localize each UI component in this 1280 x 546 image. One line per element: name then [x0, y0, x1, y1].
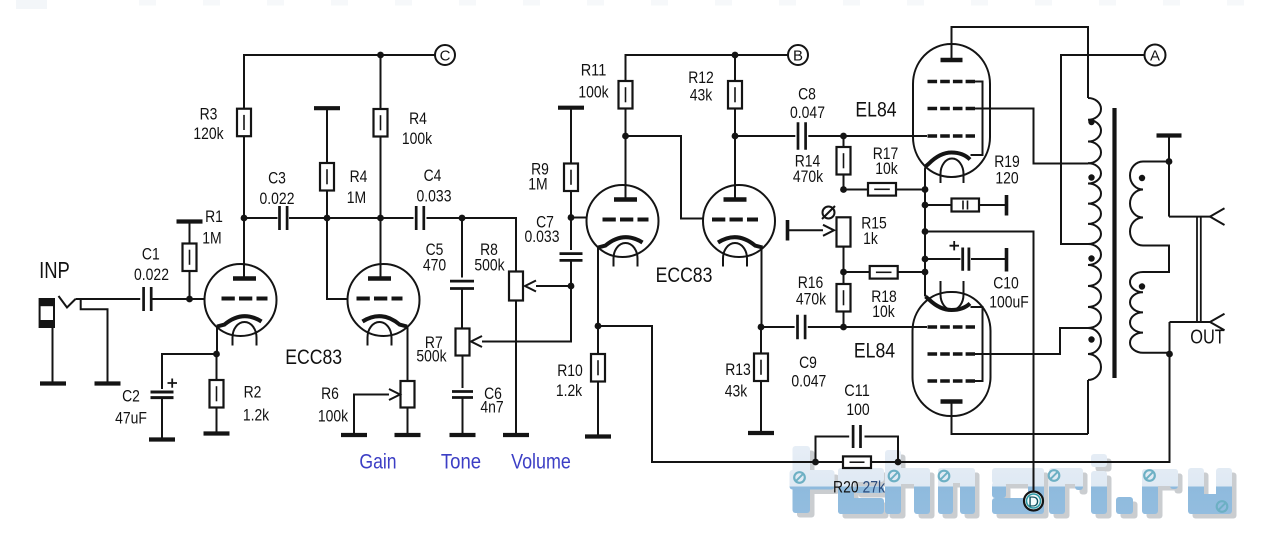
label C7 — [536, 213, 554, 232]
wire R2 to ground — [216, 408, 218, 433]
junction cathode V1a — [213, 351, 220, 358]
ground R13 — [748, 431, 774, 435]
wire C10 to end bar — [971, 258, 1005, 260]
ground above R4 1M — [314, 106, 340, 110]
svg-text:C2: C2 — [122, 387, 140, 406]
wire feedback bottom rail — [598, 326, 1170, 462]
junction R16 / C9 — [840, 324, 847, 331]
triode V1b (ECC83 half 2) — [348, 264, 420, 346]
svg-text:10k: 10k — [875, 159, 898, 178]
ground C2 — [149, 437, 175, 441]
grid g2 EL84 top — [928, 107, 976, 111]
svg-text:ECC83: ECC83 — [656, 263, 713, 287]
svg-text:0.022: 0.022 — [134, 265, 169, 284]
svg-text:Volume: Volume — [511, 450, 571, 474]
terminal D — [1024, 492, 1043, 511]
svg-text:0.033: 0.033 — [525, 227, 560, 246]
svg-text:OUT: OUT — [1190, 327, 1225, 349]
junction C8 / R14 — [840, 133, 847, 140]
wire R14 bottom — [843, 175, 845, 190]
wire cathode V1a down — [216, 327, 218, 355]
label C10 — [993, 274, 1019, 293]
polarity dot primary 2 — [1088, 174, 1094, 180]
svg-text:A: A — [1150, 47, 1160, 64]
capacitor C3 0.022 — [280, 206, 288, 230]
potentiometer R8 500k Volume — [509, 272, 523, 301]
wire plate V1a to C3 — [244, 217, 278, 219]
end bar C10 — [1005, 248, 1009, 272]
label R4 (100k) — [409, 109, 427, 128]
wire cathode to C2 — [162, 354, 217, 389]
ground secondary top — [1157, 133, 1182, 137]
bias feed bar — [786, 220, 790, 241]
ground C6 — [450, 433, 476, 437]
wire C11 right leg — [865, 437, 899, 463]
svg-text:500k: 500k — [416, 347, 447, 366]
svg-text:47uF: 47uF — [115, 409, 147, 428]
svg-text:R11: R11 — [581, 61, 607, 80]
wire bias bar to R15 wiper — [788, 229, 824, 231]
wire R7 wiper to C7 node — [482, 286, 571, 342]
wire grid V2a — [571, 217, 588, 219]
wire R17 right — [896, 189, 925, 191]
ground above R9 — [558, 106, 584, 110]
wire R6 to ground — [407, 408, 409, 434]
resistor R2 1.2k — [210, 380, 224, 408]
wire R6 wiper to ground — [354, 395, 389, 434]
wire jack sleeve down — [1169, 322, 1171, 354]
svg-text:R3: R3 — [200, 105, 218, 124]
junction R9 / C7 / grid V2a — [568, 214, 575, 221]
svg-text:1.2k: 1.2k — [556, 381, 583, 400]
junction cathode V2a / feedback — [595, 323, 602, 330]
label C1 — [142, 245, 160, 264]
wire cathode V2b to C9 — [761, 326, 795, 328]
svg-text:43k: 43k — [725, 382, 748, 401]
wire g3 to cathode EL84 bottom — [971, 307, 983, 381]
label Tone — [441, 450, 481, 474]
capacitor C4 0.033 — [416, 206, 424, 230]
value 500k (R7) — [416, 347, 447, 366]
junction cathode column / R19 — [922, 202, 929, 209]
svg-text:ECC83: ECC83 — [285, 345, 342, 369]
jack sleeve fork — [1210, 314, 1225, 331]
svg-text:470k: 470k — [796, 290, 827, 309]
value 100k (R6) — [318, 407, 349, 426]
label R13 — [725, 360, 751, 379]
polarity dot primary 3 — [1088, 255, 1094, 261]
wire R19 to end bar — [979, 204, 1005, 206]
junction grid V1a / R1 — [186, 296, 193, 303]
label R12 — [688, 68, 714, 87]
wire R9 top — [570, 108, 572, 164]
wire R18 right — [898, 271, 925, 273]
heater EL84 bottom — [941, 281, 964, 310]
resistor R12 43k — [728, 81, 742, 109]
ground R6 wiper — [341, 433, 367, 437]
capacitor C11 100 — [853, 425, 860, 448]
label R18 — [871, 287, 897, 306]
value 0.022 (C1) — [134, 265, 169, 284]
svg-text:R4: R4 — [350, 167, 368, 186]
svg-text:10k: 10k — [872, 302, 895, 321]
wire cathode to R19 — [925, 204, 952, 206]
value 10k (R17) — [875, 159, 898, 178]
junction C4 / C5 — [459, 215, 466, 222]
svg-text:100: 100 — [846, 400, 869, 419]
wire C4 to tone stack — [427, 218, 517, 272]
wire C1 to grid V1a — [151, 298, 205, 300]
trimmer symbol (circle-slash) R15 — [822, 206, 835, 219]
junction secondary bottom / jack — [1166, 351, 1173, 358]
ground R10 — [585, 434, 611, 438]
svg-text:43k: 43k — [690, 86, 713, 105]
svg-text:R1: R1 — [205, 207, 223, 226]
label R19 — [994, 152, 1020, 171]
wire plate EL84 top to transformer — [952, 27, 1089, 98]
svg-text:R13: R13 — [725, 360, 751, 379]
potentiometer R7 500k Tone — [456, 329, 470, 356]
junction B rail / R12 — [732, 52, 739, 59]
wire C2 to ground — [161, 398, 163, 438]
label C9 — [799, 353, 817, 372]
value 470k (R14) — [793, 167, 824, 186]
terminal A — [1145, 45, 1166, 66]
resistor R11 100k — [619, 81, 633, 109]
svg-text:0.047: 0.047 — [790, 103, 825, 122]
svg-text:B: B — [793, 47, 803, 64]
wire cathode V1b to R6 — [407, 327, 409, 382]
label R16 — [798, 273, 824, 292]
value 0.033 (C4) — [417, 187, 452, 206]
resistor R9 1M — [564, 164, 578, 192]
svg-text:100k: 100k — [578, 83, 609, 102]
wire C9 to grid EL84 bottom — [808, 326, 927, 328]
ground input shunt — [95, 381, 121, 385]
svg-text:Gain: Gain — [359, 450, 396, 474]
svg-text:R4: R4 — [409, 109, 427, 128]
triode V2b (phase splitter) — [703, 185, 775, 267]
resistor R1 1M — [183, 244, 197, 272]
wire C7 bottom — [570, 261, 572, 287]
label R11 — [581, 61, 607, 80]
svg-text:1M: 1M — [347, 188, 366, 207]
wire R12 to plate V2b — [734, 55, 736, 200]
transformer primary winding — [1088, 98, 1101, 434]
junction C rail / R4 100k — [377, 52, 384, 59]
capacitor C1 0.022 — [144, 287, 152, 311]
resistor R17 10k — [868, 183, 896, 196]
wire g2 EL84 bottom to UL tap — [975, 328, 1088, 354]
junction plate V1a / C3 — [241, 215, 248, 222]
wire grid V1b — [327, 218, 349, 299]
wire g3 to cathode EL84 top — [971, 82, 983, 156]
wire R7 to C6 — [462, 356, 464, 389]
svg-text:C11: C11 — [844, 381, 870, 400]
wire cathode to R2 — [216, 354, 218, 380]
svg-text:1M: 1M — [202, 229, 221, 248]
label ECC83 first — [285, 345, 342, 369]
svg-text:100k: 100k — [318, 407, 349, 426]
end bar R19 — [1005, 195, 1009, 216]
value 0.033 (C7) — [525, 227, 560, 246]
wire R8 to ground — [515, 301, 517, 434]
value 1M (R9) — [528, 175, 547, 194]
cathode EL84 bottom — [926, 297, 971, 311]
wire A rail to center tap — [1061, 55, 1145, 244]
value 100 (C11) — [846, 400, 869, 419]
label R6 — [321, 384, 339, 403]
wire jack sleeve prong — [1170, 321, 1211, 323]
svg-text:C9: C9 — [799, 353, 817, 372]
label EL84 top — [855, 98, 896, 122]
value 100uF (C10) — [989, 293, 1029, 312]
junction cathode column / C10 — [922, 256, 929, 263]
resistor R3 120k — [237, 109, 251, 137]
wire jack tip prong — [1169, 216, 1210, 218]
resistor R18 10k — [870, 266, 898, 279]
label C2 — [122, 387, 140, 406]
triode V1a (ECC83 half 1) — [205, 264, 277, 346]
junction secondary top / jack — [1166, 158, 1173, 165]
svg-text:0.047: 0.047 — [791, 372, 826, 391]
svg-text:C3: C3 — [268, 169, 286, 188]
label C6 — [484, 384, 502, 403]
label R10 — [557, 361, 583, 380]
value 4n7 (C6) — [480, 398, 503, 417]
resistor R4 100k — [374, 109, 388, 137]
label Volume — [511, 450, 571, 474]
capacitor C5 470 — [450, 281, 474, 288]
wire cathode V2a down — [597, 248, 599, 327]
resistor R19 120 — [952, 199, 980, 212]
label R7 — [425, 333, 443, 352]
label C3 — [268, 169, 286, 188]
svg-text:0.022: 0.022 — [260, 189, 295, 208]
capacitor C10 100uF — [963, 248, 969, 271]
wire plate V1a to R3 — [243, 136, 245, 279]
junction plate V2b / C8 — [732, 133, 739, 140]
svg-text:Tone: Tone — [441, 450, 481, 474]
resistor R13 43k — [754, 354, 768, 382]
label R1 — [205, 207, 223, 226]
value 1M (R4) — [347, 188, 366, 207]
svg-text:100k: 100k — [402, 129, 433, 148]
heater EL84 top — [941, 159, 964, 184]
wire cathode to C10 — [925, 258, 961, 260]
svg-text:D: D — [1028, 493, 1039, 510]
svg-text:R10: R10 — [557, 361, 583, 380]
junction bottom rail / C11 right — [895, 459, 902, 466]
ground R6 — [395, 433, 421, 437]
wire cathode EL84 top column — [924, 167, 927, 297]
label R3 — [200, 105, 218, 124]
label R9 — [531, 160, 549, 179]
value 120k (R3) — [193, 124, 224, 143]
svg-text:1k: 1k — [863, 229, 878, 248]
plate EL84 bottom — [941, 399, 963, 403]
label Gain — [359, 450, 396, 474]
polarity dot primary 4 — [1088, 336, 1094, 342]
wire R8 wiper to C7 node — [536, 285, 571, 287]
wire C11 left leg — [816, 437, 850, 463]
jack bushing double line — [1197, 217, 1201, 322]
value 47uF (C2) — [115, 409, 147, 428]
value 1.2k (R10) — [556, 381, 583, 400]
junction cathode V2b / C9 / R13 — [758, 324, 765, 331]
junction R15 / R16 / R18 — [840, 269, 847, 276]
value 43k (R12) — [690, 86, 713, 105]
junction C3 / R4 1M / grid V1b — [324, 215, 331, 222]
svg-text:4n7: 4n7 — [480, 398, 503, 417]
grid g3 EL84 top — [928, 80, 976, 84]
label R20 27k — [833, 478, 885, 497]
svg-text:R12: R12 — [688, 68, 714, 87]
transformer core — [1112, 108, 1116, 378]
value 100k (R11) — [578, 83, 609, 102]
pentode EL84 top envelope — [913, 44, 990, 177]
wiper arrow R6 — [389, 389, 400, 400]
junction C7 / wipers — [568, 283, 575, 290]
svg-text:C1: C1 — [142, 245, 160, 264]
svg-text:470k: 470k — [793, 167, 824, 186]
terminal C — [435, 45, 455, 65]
wire input net to C1 — [76, 298, 141, 300]
wire g2 EL84 top to UL tap — [975, 109, 1088, 164]
svg-text:R2: R2 — [244, 383, 262, 402]
wire R17 left — [844, 189, 869, 191]
label ECC83 second — [656, 263, 713, 287]
value 10k (R18) — [872, 302, 895, 321]
grid g1 EL84 bottom — [928, 325, 976, 329]
value 100k (R4) — [402, 129, 433, 148]
wire C7 top — [570, 218, 572, 251]
junction R4 100k / C4 row — [377, 215, 384, 222]
wire secondary ground stem — [1168, 136, 1170, 217]
value 43k (R13) — [725, 382, 748, 401]
svg-text:EL84: EL84 — [855, 98, 896, 122]
svg-text:100uF: 100uF — [989, 293, 1029, 312]
junction plate V2a / link — [622, 133, 629, 140]
wire R3 to C rail — [244, 55, 435, 109]
polarity dot secondary 1 — [1139, 175, 1145, 181]
svg-text:1.2k: 1.2k — [243, 406, 270, 425]
svg-text:500k: 500k — [474, 256, 505, 275]
label OUT — [1190, 327, 1225, 349]
label R2 — [244, 383, 262, 402]
wire input shunt to ground — [81, 299, 108, 382]
value 1.2k (R2) — [243, 406, 270, 425]
wire C8 to grid EL84 top — [808, 135, 927, 137]
value 0.047 (C8) — [790, 103, 825, 122]
label C4 — [424, 166, 442, 185]
wire R10 to ground — [597, 382, 599, 436]
wire R4 100k top — [380, 55, 382, 109]
capacitor C6 4n7 — [452, 392, 473, 398]
wire R4 1M bottom — [326, 191, 328, 219]
wire cathode EL84 bottom column — [924, 272, 927, 297]
value 120 (R19) — [995, 169, 1018, 188]
svg-text:C4: C4 — [424, 166, 442, 185]
polarity dot secondary 2 — [1139, 283, 1145, 289]
label R14 — [795, 152, 821, 171]
wire R1 top — [189, 222, 191, 244]
wire plate V2a to R11 — [625, 109, 627, 200]
label INP — [39, 257, 70, 283]
label C8 — [798, 85, 816, 104]
capacitor C8 0.047 — [798, 122, 806, 150]
value 1k (R15) — [863, 229, 878, 248]
svg-text:1M: 1M — [528, 175, 547, 194]
input jack J1 — [40, 299, 54, 327]
svg-text:C: C — [440, 47, 451, 64]
cathode EL84 top — [926, 153, 971, 167]
jack tip fork — [1210, 208, 1225, 225]
value 1M (R1) — [202, 229, 221, 248]
value 0.022 (C3) — [260, 189, 295, 208]
wire R13 to ground — [760, 381, 762, 432]
grid g3 EL84 bottom — [928, 379, 976, 383]
wiper arrow R15 — [823, 225, 834, 236]
capacitor C9 0.047 — [798, 315, 806, 340]
polarity dot primary 1 — [1088, 119, 1094, 125]
value 500k (R8) — [474, 256, 505, 275]
wire R15 bottom — [843, 247, 845, 272]
junction R14 / R17 / R15 — [840, 186, 847, 193]
wire plate V2b to C8 — [735, 135, 795, 137]
resistor R14 470k — [837, 147, 851, 175]
potentiometer R6 100k Gain — [401, 381, 415, 408]
wire R9 bottom — [570, 191, 572, 218]
junction cathode column / D line — [922, 228, 929, 235]
wire R13 top — [760, 327, 762, 354]
plus sign C2 — [168, 379, 178, 388]
plate EL84 top — [941, 58, 963, 62]
wire C5 to R7 — [461, 289, 463, 329]
svg-text:R20 27k: R20 27k — [833, 478, 885, 497]
wire R4 100k to plate V1b — [380, 137, 382, 279]
svg-text:EL84: EL84 — [854, 339, 895, 363]
ground above R1 — [177, 219, 203, 223]
capacitor C2 47uF — [151, 392, 174, 398]
wire D line — [925, 232, 1034, 492]
svg-text:INP: INP — [39, 257, 70, 283]
wire C3 to node — [289, 217, 414, 219]
triode V2a (ECC83 second) — [587, 185, 659, 267]
potentiometer R15 1k — [837, 217, 851, 246]
resistor R4 1M — [320, 163, 334, 191]
value 470k (R16) — [796, 290, 827, 309]
svg-text:R6: R6 — [321, 384, 339, 403]
label R15 — [861, 214, 887, 233]
wire R18 left — [844, 271, 871, 273]
label EL84 bottom — [854, 339, 895, 363]
ground jack sleeve — [40, 381, 66, 385]
resistor R10 1.2k — [591, 354, 605, 382]
wire cathode V2b down — [761, 248, 763, 328]
wire R4 1M top — [326, 108, 328, 163]
svg-text:120: 120 — [995, 169, 1018, 188]
label C5 — [426, 240, 444, 259]
wire C5 top — [461, 218, 463, 278]
junction bottom rail / C11 left — [812, 459, 819, 466]
pentode EL84 bottom envelope — [913, 292, 991, 416]
wire plate V2a to grid V2b — [626, 136, 704, 219]
svg-text:C8: C8 — [798, 85, 816, 104]
wiper arrow R7 — [471, 336, 482, 347]
transformer secondary winding — [1130, 162, 1170, 353]
svg-text:470: 470 — [423, 256, 446, 275]
